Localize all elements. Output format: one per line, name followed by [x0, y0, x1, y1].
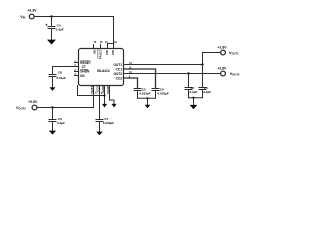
svg-text:OUT2: OUT2 — [113, 72, 122, 76]
wire OUT1 — [124, 64, 203, 66]
ground (C4) — [47, 40, 56, 45]
svg-text:0.033µF: 0.033µF — [139, 91, 151, 95]
wire C1 riser — [202, 65, 204, 88]
svg-text:3.3µF: 3.3µF — [189, 90, 197, 94]
svg-text:C8: C8 — [58, 71, 62, 75]
wire VIN rail — [34, 17, 113, 49]
terminal VOUT2 — [221, 71, 226, 76]
svg-text:VIN: VIN — [111, 49, 115, 55]
svg-text:+3.3V: +3.3V — [27, 9, 37, 13]
svg-text:FAULT: FAULT — [98, 49, 102, 59]
svg-text:GND: GND — [106, 86, 110, 92]
svg-text:OUT1: OUT1 — [113, 63, 122, 67]
svg-text:GND: GND — [101, 86, 105, 92]
terminal VIN (+3.3V input) — [29, 14, 34, 19]
svg-text:VOUT1: VOUT1 — [229, 51, 239, 56]
svg-text:CC1: CC1 — [116, 67, 123, 71]
wire OUT3 drop to VOUT3 — [93, 86, 95, 108]
capacitor C1 — [199, 88, 206, 98]
ground (C7) — [96, 132, 103, 136]
wire VOUT3 — [37, 107, 94, 109]
wire GND pin7 drop — [104, 86, 106, 104]
wire left pin stubs — [75, 63, 79, 76]
svg-text:+1.8V: +1.8V — [218, 45, 228, 49]
svg-text:0.01µF: 0.01µF — [57, 76, 67, 80]
capacitor C2 — [185, 74, 192, 98]
svg-text:3.3µF: 3.3µF — [57, 121, 65, 125]
svg-text:CC2: CC2 — [116, 76, 123, 80]
svg-text:ISL8412: ISL8412 — [97, 69, 110, 73]
capacitor C8 — [49, 75, 56, 88]
svg-text:CC3: CC3 — [96, 86, 100, 92]
svg-text:VIN: VIN — [105, 49, 109, 55]
node GND bus junction — [103, 94, 105, 96]
svg-text:CT: CT — [82, 65, 86, 69]
wire C5-C6 ground bar — [138, 98, 156, 105]
node OUT2 junction — [187, 72, 189, 74]
wire OUT2 — [124, 73, 221, 75]
node OUT1 junction — [201, 63, 203, 65]
capacitor C5 — [134, 89, 141, 99]
capacitor C4 — [48, 17, 55, 40]
svg-text:OUT3: OUT3 — [90, 85, 94, 93]
node VIN-C4 junction — [50, 15, 52, 17]
capacitor C3 — [49, 108, 56, 131]
capacitor C6 — [152, 89, 159, 99]
svg-text:3.3µF: 3.3µF — [56, 28, 64, 32]
op-amp U1 ISL8412 body — [79, 49, 124, 86]
ground (C5/C6) — [145, 105, 151, 109]
ground (C3) — [49, 131, 56, 135]
wire +1.8V riser — [203, 53, 221, 65]
terminal VOUT1 — [221, 50, 226, 55]
svg-text:0.033µF: 0.033µF — [103, 121, 115, 125]
svg-text:NC: NC — [80, 74, 85, 78]
svg-text:+2.8V: +2.8V — [28, 100, 38, 104]
svg-text:VOUT2: VOUT2 — [230, 72, 240, 77]
wire CT to C8 — [53, 67, 79, 75]
svg-text:3.3µF: 3.3µF — [203, 90, 211, 94]
capacitor C7 — [96, 120, 103, 132]
wire CC2 to C5 — [124, 78, 138, 89]
ground (C1/C2) — [190, 105, 198, 109]
ground (C8) — [50, 87, 56, 91]
ground (pin8) — [111, 104, 116, 108]
svg-text:0.033µF: 0.033µF — [157, 91, 169, 95]
terminal VOUT3 — [32, 105, 37, 110]
svg-text:+2.8V: +2.8V — [217, 66, 227, 70]
node VOUT3-C3 junction — [51, 106, 53, 108]
wire EP ground bus — [78, 86, 105, 96]
wire top pin stubs — [94, 45, 101, 49]
wire CC1 to C6 — [124, 69, 156, 89]
ground (pin7) — [102, 104, 107, 108]
svg-text:NC: NC — [93, 49, 97, 54]
wire C1-C2 ground bar — [189, 98, 203, 105]
wire CC3 drop to C7 — [99, 86, 101, 120]
wire GND pin8 drop — [110, 86, 115, 104]
